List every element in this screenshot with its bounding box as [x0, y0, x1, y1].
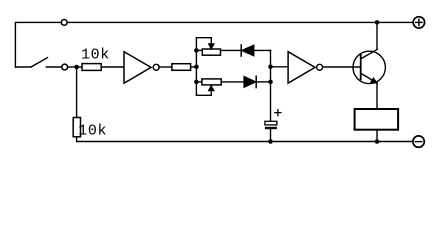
wire top rail left segment [15, 22, 61, 67]
resistor R3 [172, 64, 191, 71]
wire node switch down to R2 [76, 67, 78, 118]
wire top rail right segment [68, 21, 413, 23]
wire R2 to bottom rail [76, 137, 78, 142]
capacitor C1 electrolytic [265, 110, 281, 142]
relay K1 [355, 109, 399, 130]
trimmer P2 (bottom) [196, 79, 244, 95]
wire R1 to inverter U1 [101, 66, 124, 68]
wire U2 to Q1 base [323, 66, 361, 68]
wire U1 to R3 [159, 66, 172, 68]
wire emitter to relay K1 [376, 83, 378, 109]
resistor R2 10k (vertical) [73, 118, 80, 137]
trimmer P1 (top) [196, 38, 241, 56]
op-amp U2 inverter [288, 52, 323, 83]
wire R3 to node A [191, 66, 197, 68]
terminal J1 (open circle on top rail) [61, 20, 67, 26]
switch S1 [15, 58, 82, 70]
op-amp U1 inverter [124, 52, 159, 83]
node B right bus [270, 50, 272, 121]
wire K1 to bottom rail [376, 130, 378, 142]
terminal + supply [413, 17, 424, 28]
diode D1 (points left) [241, 45, 270, 56]
wire bottom rail [77, 141, 413, 143]
svg-text:10k: 10k [81, 47, 110, 64]
junction node switch/R2 [74, 65, 79, 70]
transistor Q1 NPN [353, 49, 385, 83]
node A left bus [195, 38, 197, 96]
resistor R1 10k (horizontal) [82, 64, 101, 71]
wire collector to top rail [376, 22, 378, 49]
svg-text:10k: 10k [78, 122, 107, 139]
terminal - supply [413, 136, 424, 147]
junction top rail / collector [375, 20, 380, 25]
wire node B to U2 [271, 66, 289, 68]
diode D2 (points right) [244, 76, 271, 87]
junction K1/bottom rail [375, 139, 380, 144]
junction C1/bottom rail [268, 139, 273, 144]
